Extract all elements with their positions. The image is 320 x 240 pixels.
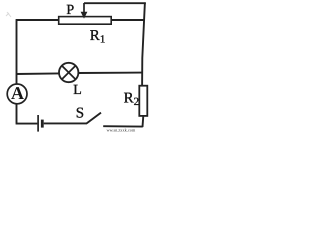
wire: left rail below ammeter to bottom-left corner then to battery: [16, 104, 38, 124]
wire: switch right contact to bottom-right corner: [103, 125, 143, 127]
svg-text:A: A: [11, 83, 24, 103]
svg-text:R2: R2: [124, 91, 140, 109]
resistor R2: [139, 86, 147, 116]
battery: long thin positive plate: [37, 115, 39, 132]
svg-text:P: P: [66, 3, 74, 18]
svg-text:ww.sn.zxxk.com: ww.sn.zxxk.com: [107, 127, 136, 132]
wire: lamp right terminal to right rail: [78, 72, 142, 74]
switch S blade: [87, 113, 101, 124]
wire: slider top horizontal to right rail: [84, 2, 146, 4]
watermark smudge top-left: [6, 12, 11, 17]
ammeter A: [7, 84, 27, 104]
battery: short thick negative plate: [41, 120, 44, 128]
wire: R2 bottom to bottom-right corner: [142, 116, 145, 127]
wire: right vertical rail from top corner down to R2 top: [142, 2, 145, 85]
wire: R1 right terminal to right rail: [111, 19, 144, 21]
wire: middle horizontal from left rail to lamp: [16, 72, 59, 75]
resistor R1 (rheostat body): [59, 17, 111, 25]
lamp L (circle with X): [59, 63, 78, 82]
wire: left vertical rail from top corner down to ammeter top: [16, 19, 18, 84]
wire: top-left horizontal from left rail to R1 left terminal: [16, 19, 59, 21]
potentiometer slider arrow P: [83, 3, 85, 12]
svg-text:L: L: [73, 83, 82, 98]
wire: battery to switch left contact: [44, 122, 87, 124]
svg-text:R1: R1: [90, 28, 106, 46]
svg-text:S: S: [76, 105, 84, 121]
